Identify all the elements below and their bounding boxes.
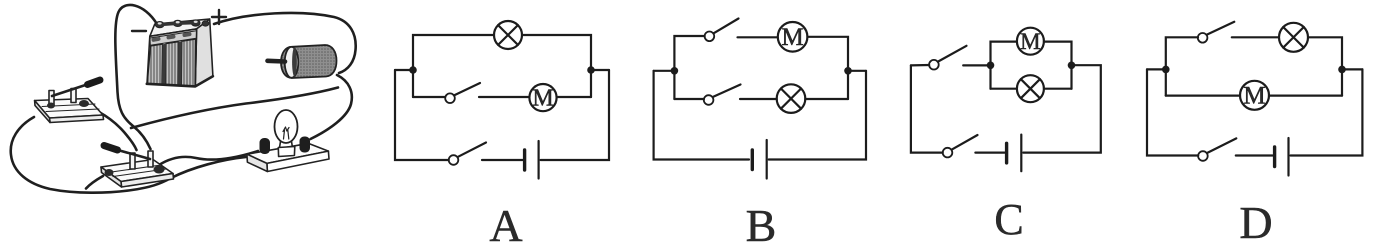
svg-text:C: C (994, 195, 1023, 244)
svg-text:M: M (532, 86, 553, 112)
svg-text:A: A (489, 200, 522, 244)
svg-text:M: M (781, 24, 803, 51)
svg-text:M: M (1243, 82, 1265, 109)
svg-text:M: M (1020, 29, 1040, 54)
svg-text:B: B (746, 200, 777, 244)
svg-text:D: D (1239, 197, 1272, 244)
